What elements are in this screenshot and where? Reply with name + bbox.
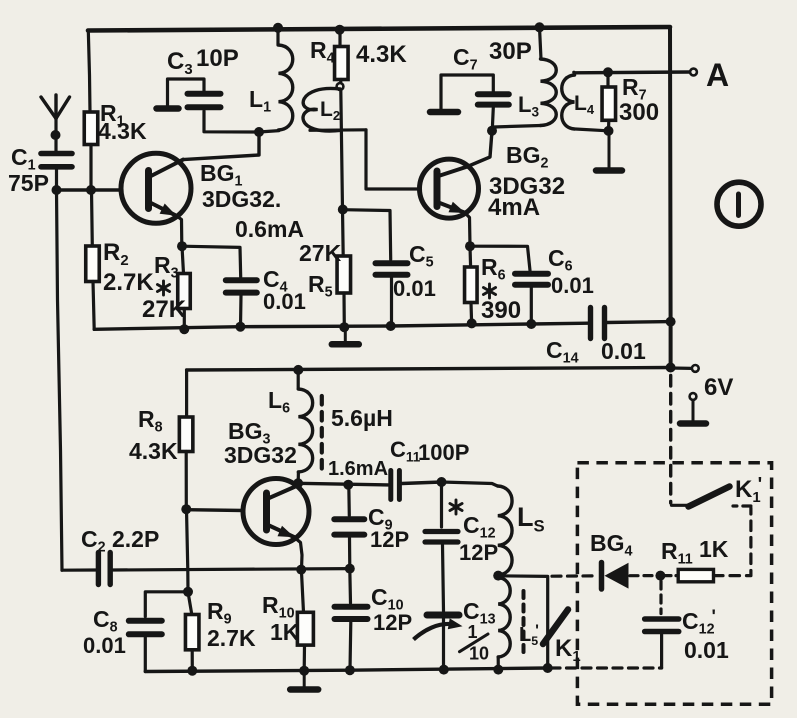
wire left vertical R1 bbox=[88, 31, 90, 113]
capacitor C2 bbox=[62, 553, 110, 585]
transistor BG3 base bar bbox=[263, 493, 270, 530]
ground R7 bbox=[596, 131, 622, 171]
label BG1 bbox=[200, 160, 243, 190]
wire C5 bottom bbox=[390, 278, 393, 326]
node R7-L4 bottom bbox=[604, 126, 614, 136]
resistor R3 bbox=[178, 274, 191, 309]
wire C9 bottom bbox=[348, 538, 351, 568]
resistor R5 bbox=[337, 256, 351, 293]
node BG3 collector bbox=[293, 478, 303, 488]
svg-text:300: 300 bbox=[619, 99, 659, 126]
label R5 bbox=[308, 271, 333, 301]
node R9 rail bbox=[187, 666, 197, 676]
svg-text:0.01: 0.01 bbox=[601, 338, 646, 364]
wire BG2 collector bbox=[468, 131, 493, 167]
wire C2 to emitter line bbox=[113, 569, 350, 570]
wire R7 bottom bbox=[607, 120, 610, 130]
label R7 bbox=[622, 74, 647, 104]
node C9-C10-C2 bbox=[345, 564, 355, 574]
wire BG2 emitter down bbox=[465, 213, 470, 246]
node emitter-C2 line bbox=[296, 565, 306, 575]
transistor BG3 emitter stroke bbox=[268, 525, 295, 537]
wire R2 bottom bbox=[93, 282, 94, 330]
node C5 rail bbox=[386, 321, 396, 331]
label L6 bbox=[268, 387, 290, 417]
wire BG3 base bbox=[186, 508, 243, 512]
wire C4 bottom bbox=[239, 296, 243, 327]
wire rail after C14 bbox=[607, 320, 671, 324]
label 27K R5 bbox=[299, 240, 342, 266]
wire R8 bottom bbox=[185, 452, 188, 509]
label C3 bbox=[167, 48, 193, 78]
node C6 rail bbox=[526, 319, 536, 329]
node R5 rail bbox=[339, 322, 349, 332]
wire to C5 bbox=[343, 210, 391, 260]
wire C6 bottom bbox=[530, 288, 533, 324]
wire C3 bottom link bbox=[204, 111, 259, 132]
resistor R1 bbox=[84, 112, 98, 145]
wire R4 to L2 ring bbox=[339, 80, 343, 84]
resistor R11 bbox=[678, 569, 713, 581]
resistor R8 bbox=[179, 417, 193, 452]
inductor L3 bbox=[541, 59, 557, 125]
wire R10 bottom bbox=[303, 645, 306, 670]
wire vertical to R9 bbox=[187, 510, 189, 592]
wire dashed C12p top stem bbox=[659, 581, 662, 614]
svg-text:0.6mA: 0.6mA bbox=[235, 216, 304, 242]
transistor BG1 body bbox=[121, 153, 191, 223]
wire right vertical border bbox=[668, 27, 673, 368]
wire dashed R11 left bbox=[664, 574, 678, 577]
node C7-L3-collector bbox=[487, 126, 497, 136]
label C7 bbox=[453, 44, 478, 74]
terminal A ring bbox=[690, 69, 697, 76]
transistor BG3 collector stroke bbox=[268, 486, 297, 499]
label 0.01 C6 bbox=[551, 273, 594, 298]
capacitor C4 bbox=[226, 280, 257, 292]
wire C9 stem bbox=[347, 485, 351, 516]
wire C8 link bbox=[145, 592, 188, 617]
resistor R6 bbox=[465, 267, 478, 303]
wire 6V bbox=[671, 366, 692, 370]
label C13 bbox=[463, 598, 496, 628]
antenna bbox=[41, 95, 70, 151]
label C5 bbox=[409, 241, 434, 271]
svg-text:12P: 12P bbox=[370, 527, 409, 552]
node L3 top bbox=[535, 22, 545, 32]
wire dashed BG4 to node bbox=[630, 574, 656, 577]
node C1-base junction bbox=[52, 185, 62, 195]
wire L4 bottom link bbox=[576, 129, 609, 131]
ground bottom-section bbox=[290, 671, 318, 690]
capacitor C11 bbox=[391, 471, 400, 500]
wire base horizontal bbox=[57, 188, 122, 191]
svg-text:0.01: 0.01 bbox=[83, 633, 126, 658]
wire BG2 base path bbox=[366, 130, 420, 189]
node R4 top bbox=[335, 25, 345, 35]
capacitor C12 bbox=[425, 532, 458, 543]
capacitor C14 bbox=[591, 308, 605, 339]
label C9 bbox=[368, 504, 393, 534]
inductor L4 bbox=[562, 72, 575, 129]
transistor BG2 base bar bbox=[434, 171, 441, 207]
switch K1-prime blade bbox=[689, 487, 730, 507]
label 10P bbox=[196, 45, 239, 72]
wire L5p bottom bbox=[497, 657, 500, 669]
node C11-C12-L5 bbox=[437, 477, 447, 487]
wire R5 bottom bbox=[342, 293, 345, 327]
wire R2 top bbox=[90, 190, 94, 246]
wire L2 bottom horizontal bbox=[310, 128, 366, 132]
transistor BG2 emitter stroke bbox=[439, 202, 466, 213]
label 390 bbox=[481, 297, 521, 324]
label BG3 bbox=[228, 418, 271, 448]
svg-text:0.01: 0.01 bbox=[684, 637, 729, 663]
node C9 top junction bbox=[343, 480, 353, 490]
label 0.01 C14 bbox=[601, 338, 646, 364]
wire L3 bottom link bbox=[494, 126, 541, 128]
label 12P C12 bbox=[459, 540, 498, 565]
terminal 6V ring bbox=[692, 365, 699, 372]
svg-text:4.3K: 4.3K bbox=[356, 41, 407, 68]
svg-text:4.3K: 4.3K bbox=[98, 118, 147, 144]
node emitter-R6-C6 bbox=[465, 241, 475, 251]
label BG4 bbox=[590, 530, 633, 560]
wire R8 branch top bbox=[185, 370, 188, 417]
label R4 bbox=[310, 37, 335, 67]
node L1 top bbox=[273, 23, 283, 33]
svg-text:4mA: 4mA bbox=[488, 194, 540, 221]
label L4 bbox=[574, 92, 595, 117]
label 1K R10 bbox=[270, 619, 300, 645]
resistor R9 bbox=[185, 615, 199, 650]
svg-text:5.6µH: 5.6µH bbox=[331, 405, 393, 431]
node C8 junction bbox=[183, 587, 193, 597]
node C4 rail bbox=[235, 322, 245, 332]
svg-text:3DG32.: 3DG32. bbox=[202, 186, 281, 212]
inductor L5-prime core dashes bbox=[522, 591, 526, 653]
wire L5 top link bbox=[442, 482, 498, 486]
wire A terminal bbox=[575, 70, 690, 74]
transistor BG2 collector stroke bbox=[439, 167, 468, 177]
asterisk R6 bbox=[483, 284, 495, 298]
svg-text:1: 1 bbox=[468, 622, 478, 642]
wire BG3 emitter down bbox=[294, 537, 302, 569]
resistor R4 bbox=[335, 47, 349, 80]
svg-text:C2 2.2P: C2 2.2P bbox=[81, 526, 159, 556]
label 3DG32. bbox=[202, 186, 281, 212]
label R9 bbox=[207, 598, 232, 628]
label L1 bbox=[249, 86, 271, 116]
svg-text:10P: 10P bbox=[196, 45, 239, 72]
node R10 rail bbox=[299, 666, 309, 676]
wire C1 to base node bbox=[55, 170, 58, 190]
label 75P bbox=[8, 170, 49, 196]
svg-text:75P: 75P bbox=[8, 170, 49, 196]
label 3DG32 BG2 bbox=[489, 173, 565, 200]
label 12P C9 bbox=[370, 527, 409, 552]
node K1 rail bbox=[543, 663, 553, 673]
label C14 bbox=[546, 337, 579, 367]
svg-text:1K: 1K bbox=[699, 536, 729, 562]
label C12-prime bbox=[682, 606, 716, 638]
node C3-L1 bottom bbox=[254, 127, 264, 137]
capacitor C13 variable bbox=[414, 615, 463, 640]
label 0.01 C8 bbox=[83, 633, 126, 658]
inductor L5-prime bbox=[498, 578, 510, 658]
capacitor C9 bbox=[334, 519, 364, 534]
wire R6 top bbox=[468, 246, 472, 267]
wire dashed from K1 to BG4 bbox=[552, 574, 598, 578]
wire R9 bottom bbox=[191, 650, 194, 671]
wire to C4 bbox=[182, 246, 241, 277]
node R6 rail bbox=[467, 318, 477, 328]
mark figure circled 1 bbox=[717, 182, 761, 226]
node C14 right bbox=[666, 317, 676, 327]
svg-text:4.3K: 4.3K bbox=[129, 438, 178, 464]
transistor BG1 emitter stroke bbox=[150, 203, 177, 216]
label 1.6mA bbox=[328, 458, 388, 480]
wire R3 top bbox=[182, 246, 184, 273]
node L6 top bbox=[293, 365, 303, 375]
svg-text:0.01: 0.01 bbox=[551, 273, 594, 298]
wire dashed R11 right bbox=[714, 508, 751, 576]
transistor BG1 base bar bbox=[145, 171, 152, 209]
svg-text:100P: 100P bbox=[418, 440, 469, 465]
label L5 bbox=[517, 502, 545, 535]
label 300 bbox=[619, 99, 659, 126]
label R6 bbox=[481, 254, 506, 284]
node R5-C5 junction bbox=[338, 205, 348, 215]
label K1 bbox=[555, 635, 581, 665]
label 0.01 C12p bbox=[684, 637, 729, 663]
wire R4 top stem bbox=[338, 30, 341, 47]
wire L1 bottom link bbox=[259, 131, 279, 132]
label 1/10 fraction bbox=[460, 622, 490, 664]
label C1 bbox=[11, 144, 36, 174]
svg-text:1.6mA: 1.6mA bbox=[328, 458, 388, 480]
wire C12-C13 stem bbox=[443, 545, 444, 611]
inductor L6 core dashes bbox=[320, 396, 324, 470]
wire C3 ground stub bbox=[157, 79, 205, 109]
label 2.7K R2 bbox=[103, 269, 154, 296]
node L5-L5p junction bbox=[493, 571, 503, 581]
node BG4-R11-C12p bbox=[655, 571, 665, 581]
label 0.01 C5 bbox=[393, 276, 436, 301]
svg-text:2.7K: 2.7K bbox=[103, 269, 154, 296]
label 3DG32 BG3 bbox=[224, 442, 297, 468]
node C13 rail bbox=[439, 665, 449, 675]
label C11 bbox=[390, 437, 421, 464]
ground top-section bbox=[332, 327, 359, 344]
wire dashed supply into K1p bbox=[669, 376, 672, 504]
inductor L1 bbox=[279, 45, 293, 130]
label 27K R3 bbox=[142, 296, 187, 323]
label R8 bbox=[138, 406, 163, 436]
svg-text:30P: 30P bbox=[489, 38, 532, 65]
resistor R2 bbox=[86, 246, 100, 282]
label 4.3K R1 bbox=[98, 118, 147, 144]
svg-text:1K: 1K bbox=[270, 619, 300, 645]
wire L1 top stem bbox=[276, 28, 279, 45]
svg-text:27K: 27K bbox=[299, 240, 342, 266]
wire R10 top bbox=[301, 570, 303, 612]
wire C12 stem bbox=[440, 482, 443, 527]
wire bottom-section top rail bbox=[187, 368, 671, 371]
svg-text:A: A bbox=[706, 57, 729, 93]
node R1 bottom junction bbox=[86, 185, 96, 195]
wire C13 bottom bbox=[442, 618, 445, 669]
wire collector horizontal bbox=[298, 483, 388, 485]
node L5p rail bbox=[493, 665, 503, 675]
label R2 bbox=[103, 239, 129, 269]
capacitor C7 bbox=[478, 94, 509, 104]
svg-text:12P: 12P bbox=[373, 610, 412, 635]
resistor R10 bbox=[297, 612, 313, 645]
label C2 2.2P bbox=[81, 526, 159, 556]
node antenna-C1 bbox=[51, 130, 61, 140]
wire R6 bottom bbox=[469, 303, 473, 324]
wire antenna line down to C2 bbox=[57, 190, 63, 570]
node R3 rail bbox=[179, 324, 189, 334]
capacitor C3 bbox=[188, 94, 221, 107]
label 5.6uH bbox=[331, 405, 393, 431]
label C4 bbox=[263, 266, 288, 296]
switch K1 blade bbox=[543, 610, 568, 645]
label C12 bbox=[463, 512, 496, 542]
label C8 bbox=[93, 606, 118, 636]
transistor BG2 body bbox=[420, 159, 479, 218]
svg-text:12P: 12P bbox=[459, 540, 498, 565]
svg-text:6V: 6V bbox=[704, 374, 733, 401]
node L2 top ring bbox=[337, 83, 344, 90]
wire dashed K1p right stub bbox=[733, 504, 751, 507]
node emitter-R3-C4 bbox=[177, 241, 187, 251]
wire BG1 collector to L1 bbox=[183, 133, 259, 160]
wire C7 ground stub bbox=[430, 75, 493, 112]
resistor R7 bbox=[602, 87, 616, 120]
wire C11 to L5 node bbox=[402, 482, 442, 484]
label R3 bbox=[154, 252, 179, 282]
capacitor C5 bbox=[376, 263, 408, 275]
label 6V bbox=[704, 374, 733, 401]
inductor L5 bbox=[498, 486, 512, 575]
wire L6 bottom to collector bbox=[297, 472, 300, 483]
label R10 bbox=[262, 592, 295, 622]
svg-text:0.01: 0.01 bbox=[263, 289, 306, 314]
capacitor C6 bbox=[515, 274, 548, 285]
label R1 bbox=[100, 100, 125, 130]
wire C10 stem bbox=[348, 569, 352, 603]
svg-text:10: 10 bbox=[469, 644, 489, 664]
dashed box K1-prime unit bbox=[577, 463, 771, 705]
label 2.7K R9 bbox=[207, 625, 256, 651]
node BG3 base junction bbox=[181, 504, 191, 514]
capacitor C8 bbox=[129, 621, 162, 635]
label A bbox=[706, 57, 729, 93]
wire K1 feed bbox=[498, 576, 548, 668]
terminal ground 6V ring bbox=[690, 393, 697, 400]
ground 6V bbox=[680, 400, 706, 424]
node 6V junction bbox=[666, 363, 676, 373]
transistor BG3 body bbox=[243, 479, 309, 545]
label 4mA bbox=[488, 194, 540, 221]
wire C10 bottom bbox=[348, 622, 352, 670]
wire dashed bottom link bbox=[551, 666, 662, 669]
label 1K R11 bbox=[699, 536, 729, 562]
wire top supply rail bbox=[88, 27, 670, 31]
asterisk C12 bbox=[450, 500, 462, 514]
svg-text:27K: 27K bbox=[142, 296, 187, 323]
capacitor C10 bbox=[335, 607, 368, 619]
label 30P bbox=[489, 38, 532, 65]
capacitor C12-prime bbox=[645, 619, 679, 632]
wire main vertical under L2 bbox=[341, 90, 343, 257]
asterisk R3 bbox=[157, 281, 169, 295]
label K1-prime bbox=[735, 474, 762, 506]
inductor L2 bbox=[303, 88, 341, 131]
diode BG4 bbox=[602, 563, 629, 590]
label C6 bbox=[548, 245, 573, 275]
label 100P bbox=[418, 440, 469, 465]
label L3 bbox=[518, 92, 539, 119]
inductor L6 bbox=[298, 370, 312, 472]
wire C8 bottom bbox=[144, 638, 147, 672]
wire to C6 bbox=[470, 246, 530, 270]
svg-text:2.7K: 2.7K bbox=[207, 625, 256, 651]
node C10 rail bbox=[345, 665, 355, 675]
label BG2 bbox=[506, 142, 549, 172]
label L2 bbox=[320, 98, 340, 123]
wire bottom rail bottom-section bbox=[145, 668, 547, 672]
wire C7 bottom bbox=[492, 108, 493, 130]
label 12P C10 bbox=[373, 610, 412, 635]
wire R9 top bbox=[188, 592, 192, 615]
wire R7 top stem bbox=[606, 72, 609, 87]
wire L3 stem bbox=[540, 28, 542, 60]
wire BG1 emitter down bbox=[177, 216, 182, 246]
label 4.3K R4 bbox=[356, 41, 407, 68]
label 0.01 C4 bbox=[263, 289, 306, 314]
label 4.3K R8 bbox=[129, 438, 178, 464]
capacitor C1 bbox=[41, 154, 72, 167]
transistor BG1 collector stroke bbox=[150, 160, 183, 177]
wire C12p bottom stem bbox=[660, 635, 663, 668]
label 0.6mA bbox=[235, 216, 304, 242]
svg-text:3DG32: 3DG32 bbox=[224, 442, 297, 468]
svg-text:0.01: 0.01 bbox=[393, 276, 436, 301]
svg-text:390: 390 bbox=[481, 297, 521, 324]
svg-text:K1': K1' bbox=[735, 474, 762, 506]
wire bottom rail top-section bbox=[94, 323, 588, 329]
label R11 bbox=[661, 538, 693, 568]
svg-text:L5': L5' bbox=[519, 622, 539, 648]
wire R3 bottom bbox=[183, 309, 186, 330]
wire R1 bottom bbox=[89, 145, 92, 191]
label L5-prime bbox=[519, 622, 539, 648]
wire K1p left stub bbox=[672, 504, 689, 507]
label C10 bbox=[371, 584, 404, 614]
node R7-L4 top bbox=[603, 67, 613, 77]
